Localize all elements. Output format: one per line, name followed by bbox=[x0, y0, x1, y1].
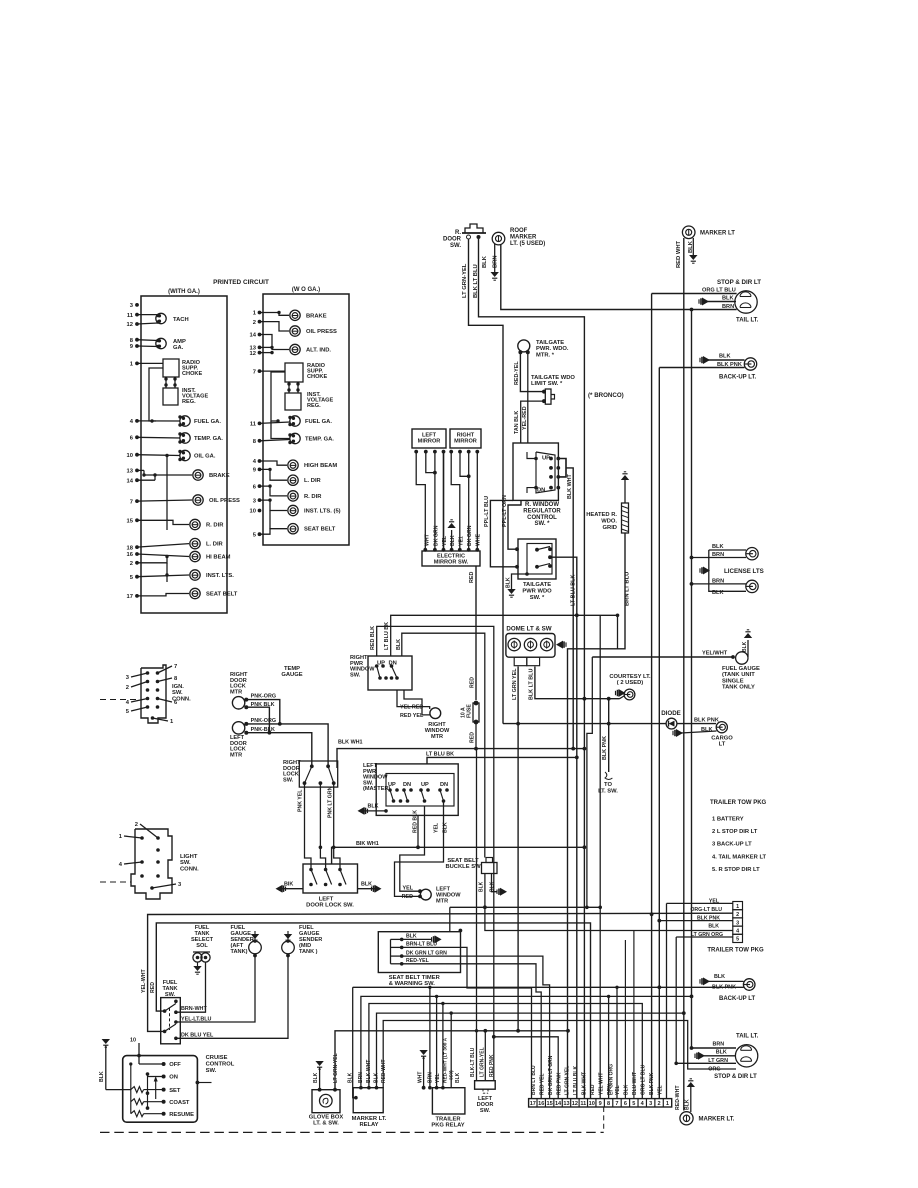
svg-text:RESUME: RESUME bbox=[169, 1112, 194, 1118]
svg-text:YEL: YEL bbox=[615, 1085, 621, 1095]
lamp OIL PRESS (B) bbox=[290, 326, 300, 336]
svg-text:TAILGATE: TAILGATE bbox=[536, 340, 564, 346]
svg-text:11: 11 bbox=[250, 422, 257, 428]
svg-text:ELECTRIC: ELECTRIC bbox=[437, 554, 465, 560]
svg-text:ALT. IND.: ALT. IND. bbox=[306, 348, 331, 354]
connector arrow BLK backup bbox=[699, 358, 701, 362]
svg-text:7: 7 bbox=[130, 499, 133, 505]
bus ORG LT BLU vertical bbox=[651, 294, 653, 915]
svg-text:BLK-LT BLU: BLK-LT BLU bbox=[470, 1047, 476, 1077]
wire fuel gauge feed down with jog bbox=[587, 657, 592, 907]
svg-text:TANK ONLY: TANK ONLY bbox=[722, 685, 755, 691]
lamp CARGO LT bbox=[716, 722, 727, 733]
svg-text:BLK WH1: BLK WH1 bbox=[338, 740, 363, 746]
svg-text:BRN-LT BLU: BRN-LT BLU bbox=[406, 942, 437, 948]
svg-text:BLK: BLK bbox=[708, 924, 719, 930]
svg-text:IGN.: IGN. bbox=[172, 684, 184, 690]
svg-text:12: 12 bbox=[250, 351, 256, 357]
wire LT BLU BLK from tailgate sw bbox=[550, 557, 577, 1098]
lamp L DIR (A) bbox=[190, 538, 200, 548]
gauge OIL GA (A) bbox=[180, 450, 190, 460]
svg-text:ORG LT BLU: ORG LT BLU bbox=[702, 288, 736, 294]
svg-text:RED PNK: RED PNK bbox=[489, 1054, 495, 1077]
svg-text:HEATED R.: HEATED R. bbox=[586, 512, 617, 518]
svg-text:YEL: YEL bbox=[435, 1073, 441, 1083]
svg-text:BLK: BLK bbox=[479, 881, 485, 892]
svg-text:BLK: BLK bbox=[742, 641, 748, 652]
svg-text:L. DIR: L. DIR bbox=[206, 542, 224, 548]
svg-text:YEL: YEL bbox=[403, 886, 414, 892]
svg-text:OIL GA.: OIL GA. bbox=[194, 454, 216, 460]
svg-text:PNK YEL: PNK YEL bbox=[298, 789, 304, 812]
wires seat belt timer pins bbox=[390, 939, 392, 963]
svg-text:HI BEAM: HI BEAM bbox=[206, 555, 231, 561]
wire BLK LT BLU from R DOOR SW bbox=[479, 239, 585, 1099]
svg-text:LIGHT: LIGHT bbox=[180, 854, 198, 860]
motor LEFT WINDOW MTR bbox=[420, 889, 431, 900]
svg-text:RED YEL: RED YEL bbox=[400, 713, 424, 719]
svg-text:2: 2 bbox=[658, 1101, 661, 1107]
svg-text:1: 1 bbox=[666, 1101, 669, 1107]
connector TRAILER TOW PKG bbox=[733, 902, 743, 910]
svg-text:TAN BLK: TAN BLK bbox=[514, 411, 520, 434]
svg-text:PNK LT GRN: PNK LT GRN bbox=[328, 786, 334, 818]
relay MARKER LT RELAY bbox=[353, 1088, 383, 1113]
cruise right stub bbox=[196, 1081, 200, 1085]
wire left contacts reg sw bbox=[527, 452, 536, 459]
svg-text:BACK-UP LT.: BACK-UP LT. bbox=[719, 375, 756, 381]
svg-text:4: 4 bbox=[736, 929, 739, 935]
svg-text:CONN.: CONN. bbox=[172, 696, 191, 702]
svg-text:ORG LT BLU: ORG LT BLU bbox=[640, 1064, 646, 1095]
svg-text:FUSE: FUSE bbox=[467, 704, 473, 718]
svg-text:RED-YEL: RED-YEL bbox=[514, 361, 520, 385]
bus BRN vertical right bbox=[691, 310, 693, 1049]
svg-text:3 BACK-UP LT: 3 BACK-UP LT bbox=[712, 842, 752, 848]
lamp ROOF MARKER LT bbox=[492, 232, 505, 245]
connector arrow BLK stop&dir bbox=[698, 299, 700, 303]
svg-text:FUEL GAUGE: FUEL GAUGE bbox=[722, 666, 760, 672]
svg-text:CHOKE: CHOKE bbox=[307, 374, 327, 380]
svg-text:DK BLU YEL: DK BLU YEL bbox=[181, 1032, 214, 1038]
wire from right pwr window sw to heated grid line bbox=[391, 615, 618, 656]
svg-text:LT BLU BLK: LT BLU BLK bbox=[573, 1066, 579, 1095]
svg-text:MARKER LT: MARKER LT bbox=[700, 231, 735, 237]
svg-text:14: 14 bbox=[555, 1101, 562, 1107]
svg-text:BLK: BLK bbox=[722, 296, 734, 302]
svg-text:12: 12 bbox=[572, 1101, 578, 1107]
dashed page border bottom bbox=[100, 1131, 604, 1133]
svg-text:SW.: SW. bbox=[180, 860, 191, 866]
ground BLK cruise bbox=[102, 1039, 110, 1044]
svg-text:DOOR LOCK SW.: DOOR LOCK SW. bbox=[306, 903, 354, 909]
wire YEL WHT fuel gauge bbox=[592, 656, 733, 658]
svg-text:BRN LT BLU: BRN LT BLU bbox=[625, 572, 631, 606]
svg-text:BLK: BLK bbox=[714, 974, 725, 980]
svg-text:YEL: YEL bbox=[434, 822, 440, 833]
svg-text:STOP & DIR LT: STOP & DIR LT bbox=[717, 279, 761, 286]
wire pin8 BRN bbox=[608, 996, 610, 1098]
svg-text:PNK-ORG: PNK-ORG bbox=[251, 694, 276, 700]
dash stub light conn bbox=[100, 881, 131, 883]
svg-text:TANK ): TANK ) bbox=[299, 949, 318, 955]
ground electric mirror sw bbox=[451, 530, 453, 549]
svg-text:TRAILER TOW PKG: TRAILER TOW PKG bbox=[707, 948, 764, 954]
svg-text:7: 7 bbox=[253, 369, 256, 375]
ground glove box bbox=[315, 1061, 323, 1066]
gauge TEMP GA (B) bbox=[290, 433, 300, 443]
svg-text:GLOVE BOX: GLOVE BOX bbox=[309, 1115, 344, 1121]
svg-text:DIODE: DIODE bbox=[661, 710, 681, 717]
svg-text:BLK: BLK bbox=[368, 804, 379, 810]
svg-text:PPL-LT BLU: PPL-LT BLU bbox=[484, 496, 490, 527]
svg-text:BLK: BLK bbox=[450, 535, 456, 546]
svg-text:(* BRONCO): (* BRONCO) bbox=[588, 392, 624, 399]
svg-text:WHE: WHE bbox=[476, 533, 482, 546]
svg-text:BIK WH1: BIK WH1 bbox=[356, 841, 379, 847]
switch LEFT DOOR SW bottom bbox=[475, 1081, 496, 1090]
node dome lt grn yel junction bbox=[516, 722, 520, 726]
svg-text:DOOR: DOOR bbox=[443, 236, 462, 242]
svg-text:2: 2 bbox=[126, 685, 129, 691]
ground fuel select sol bbox=[197, 962, 199, 966]
svg-text:DN: DN bbox=[440, 782, 448, 788]
svg-text:12: 12 bbox=[127, 322, 133, 328]
choke RADIO SUPP CHOKE (B) bbox=[285, 363, 303, 382]
svg-text:R. DIR: R. DIR bbox=[206, 523, 224, 529]
svg-text:TEMP. GA.: TEMP. GA. bbox=[194, 436, 223, 442]
svg-text:BLK: BLK bbox=[482, 255, 488, 268]
svg-text:MIRROR SW.: MIRROR SW. bbox=[434, 560, 469, 566]
svg-text:RED BLK: RED BLK bbox=[370, 626, 376, 650]
svg-text:BRN-WHT: BRN-WHT bbox=[181, 1006, 207, 1012]
node BRN / bus junction bbox=[690, 308, 694, 312]
wire YEL-RED tailgate mtr to reg sw bbox=[527, 352, 529, 443]
svg-text:DOME LT & SW: DOME LT & SW bbox=[506, 626, 551, 633]
svg-text:11: 11 bbox=[127, 313, 134, 319]
lamp L DIR (B) bbox=[288, 475, 298, 485]
wire BRN LT BLU heated grid bbox=[568, 533, 626, 1099]
svg-text:LT GRN-YEL: LT GRN-YEL bbox=[480, 1047, 486, 1077]
svg-text:RED: RED bbox=[402, 894, 413, 900]
lamp GLOVE BOX LT & SW bbox=[312, 1090, 340, 1113]
svg-text:BLK WHT: BLK WHT bbox=[567, 473, 573, 499]
svg-text:FUEL GA.: FUEL GA. bbox=[305, 419, 332, 425]
svg-text:CRUISE: CRUISE bbox=[206, 1055, 228, 1061]
svg-text:14: 14 bbox=[250, 333, 257, 339]
svg-text:LT GRN-YEL: LT GRN-YEL bbox=[462, 263, 468, 298]
svg-text:& WARNING SW.: & WARNING SW. bbox=[389, 981, 435, 987]
svg-text:YEL/WHT: YEL/WHT bbox=[702, 651, 728, 657]
bus BLK PNK to pin 2 bbox=[658, 987, 660, 1098]
wire buckle sw BLK down to trailer pin 4 bbox=[485, 907, 733, 930]
svg-text:TEMP: TEMP bbox=[284, 666, 300, 672]
svg-text:SEAT BELT: SEAT BELT bbox=[304, 527, 336, 533]
gauge AMP GA bbox=[156, 338, 166, 348]
motor RIGHT WINDOW MTR bbox=[430, 708, 441, 719]
wire BLK tailgate sw to ground bbox=[512, 574, 528, 589]
svg-text:YEL: YEL bbox=[442, 535, 448, 546]
svg-text:HIGH BEAM: HIGH BEAM bbox=[304, 463, 337, 469]
svg-text:ON: ON bbox=[169, 1075, 178, 1081]
svg-text:RED YEL: RED YEL bbox=[539, 1073, 545, 1095]
svg-text:RED: RED bbox=[590, 1084, 596, 1095]
svg-text:BLK: BLK bbox=[455, 1072, 461, 1083]
svg-text:3: 3 bbox=[736, 920, 739, 926]
svg-text:BLK: BLK bbox=[490, 881, 496, 892]
svg-text:R. DIR: R. DIR bbox=[304, 494, 322, 500]
svg-text:MARKER: MARKER bbox=[510, 234, 537, 240]
svg-text:LT GRN ORG: LT GRN ORG bbox=[609, 1064, 615, 1095]
svg-text:BRAKE: BRAKE bbox=[209, 473, 230, 479]
dash stub ign conn bbox=[100, 699, 139, 701]
svg-text:YE1: YE1 bbox=[459, 536, 465, 546]
svg-text:BLK: BLK bbox=[624, 1084, 630, 1095]
svg-text:BRN: BRN bbox=[493, 255, 499, 268]
svg-text:YEL-WHT: YEL-WHT bbox=[141, 969, 147, 993]
ground tailgate pwr wdo sw bbox=[507, 589, 515, 594]
svg-text:17: 17 bbox=[127, 594, 133, 600]
svg-text:BRN: BRN bbox=[713, 1041, 725, 1047]
svg-text:BRN LT BLU: BRN LT BLU bbox=[531, 1065, 537, 1095]
svg-text:SEAT BELT TIMER: SEAT BELT TIMER bbox=[389, 975, 441, 981]
svg-text:(W O GA.): (W O GA.) bbox=[292, 287, 320, 293]
connector strip 17-1 bbox=[529, 1099, 672, 1107]
wire BRN roof marker bbox=[501, 244, 737, 310]
svg-text:SEAT BELT: SEAT BELT bbox=[206, 592, 238, 598]
wire RED-YEL tailgate mtr to limit sw bbox=[520, 352, 544, 391]
svg-text:2: 2 bbox=[135, 822, 138, 828]
svg-text:SW.: SW. bbox=[480, 1108, 491, 1114]
svg-text:LT GRN-YEL: LT GRN-YEL bbox=[333, 1053, 339, 1083]
svg-text:5: 5 bbox=[632, 1101, 635, 1107]
svg-text:LT. (5 USED): LT. (5 USED) bbox=[510, 241, 545, 247]
gauge FUEL GA (B) bbox=[290, 416, 300, 426]
svg-text:REG.: REG. bbox=[307, 403, 321, 409]
svg-text:CARGO: CARGO bbox=[711, 736, 733, 742]
svg-text:7: 7 bbox=[615, 1101, 618, 1107]
svg-text:WHT: WHT bbox=[418, 1072, 424, 1083]
svg-text:COURTESY LT.: COURTESY LT. bbox=[609, 674, 651, 680]
svg-text:REGULATOR: REGULATOR bbox=[523, 508, 561, 514]
connector arrow license bbox=[699, 568, 701, 572]
svg-text:BLK PNK: BLK PNK bbox=[602, 736, 608, 760]
bus ORG LT BLU to pin 3 bbox=[651, 914, 653, 1098]
connector arrow cargo bbox=[672, 731, 674, 735]
svg-text:YEL-RED: YEL-RED bbox=[522, 406, 528, 430]
wire BLK PNK to LT SW bbox=[608, 699, 610, 772]
svg-text:RELAY: RELAY bbox=[359, 1122, 378, 1128]
svg-text:WDO.: WDO. bbox=[601, 518, 617, 524]
svg-text:OIL PRESS: OIL PRESS bbox=[209, 498, 240, 504]
svg-text:BLK: BLK bbox=[99, 1071, 105, 1082]
lamp LICENSE LTS lower bbox=[746, 580, 758, 592]
box SEAT BELT TIMER & WARNING SW bbox=[378, 932, 460, 973]
lamp R DIR (A) bbox=[190, 519, 200, 529]
svg-text:MTR: MTR bbox=[431, 734, 443, 740]
svg-text:SET: SET bbox=[169, 1088, 181, 1094]
svg-text:STOP & DIR LT: STOP & DIR LT bbox=[714, 1074, 757, 1080]
svg-text:10: 10 bbox=[130, 1038, 136, 1044]
svg-text:BUCKLE SW: BUCKLE SW bbox=[445, 864, 481, 870]
svg-text:SW.: SW. bbox=[283, 777, 294, 783]
svg-text:TEMP. GA.: TEMP. GA. bbox=[305, 437, 334, 443]
terminal dots electric mirror sw bbox=[423, 548, 427, 552]
svg-text:CONTROL: CONTROL bbox=[527, 515, 557, 521]
wire pin 9 vertical YEL WHT bbox=[599, 615, 601, 1098]
svg-text:MTR: MTR bbox=[436, 899, 448, 905]
svg-text:BLK: BLK bbox=[688, 240, 694, 253]
svg-text:2: 2 bbox=[736, 912, 739, 918]
svg-text:LIMIT SW. *: LIMIT SW. * bbox=[531, 381, 563, 387]
svg-text:GRID: GRID bbox=[603, 525, 618, 531]
svg-text:2 L STOP DIR LT: 2 L STOP DIR LT bbox=[712, 829, 758, 835]
svg-text:2: 2 bbox=[130, 561, 133, 567]
svg-text:3: 3 bbox=[649, 1101, 652, 1107]
relay TRAILER PKG RELAY bbox=[432, 1088, 465, 1114]
svg-text:10: 10 bbox=[250, 509, 256, 515]
svg-text:(WITH GA.): (WITH GA.) bbox=[168, 289, 200, 295]
svg-text:BLK PNK: BLK PNK bbox=[694, 718, 719, 724]
box RIGHT MIRROR bbox=[450, 429, 481, 448]
svg-text:TO: TO bbox=[604, 782, 612, 788]
svg-text:15: 15 bbox=[547, 1101, 553, 1107]
lamp HI BEAM (A) bbox=[190, 551, 200, 561]
motor TAILGATE PWR WDO MTR bbox=[518, 340, 530, 352]
svg-text:BACK-UP LT: BACK-UP LT bbox=[719, 996, 755, 1002]
svg-text:BLK: BLK bbox=[396, 639, 402, 650]
lamp SEAT BELT (A) bbox=[190, 588, 200, 598]
svg-text:1 BATTERY: 1 BATTERY bbox=[712, 817, 744, 823]
svg-text:BLK: BLK bbox=[506, 577, 512, 588]
svg-text:6: 6 bbox=[624, 1101, 627, 1107]
svg-text:BLK: BLK bbox=[716, 1050, 727, 1056]
connector IGN SW CONN bbox=[141, 665, 166, 723]
svg-text:DN: DN bbox=[403, 782, 411, 788]
svg-text:2: 2 bbox=[253, 320, 256, 326]
svg-text:5. R STOP DIR LT: 5. R STOP DIR LT bbox=[712, 867, 760, 873]
svg-text:GAUGE: GAUGE bbox=[281, 672, 302, 678]
svg-text:11: 11 bbox=[580, 1101, 586, 1107]
wire TAN BLK limit sw to reg sw bbox=[521, 401, 544, 443]
svg-text:INST. LTS. (5): INST. LTS. (5) bbox=[304, 509, 341, 515]
svg-text:BRAKE: BRAKE bbox=[306, 313, 327, 319]
svg-text:LT. SW.: LT. SW. bbox=[598, 788, 618, 794]
svg-text:TAIL LT.: TAIL LT. bbox=[736, 1034, 759, 1040]
svg-text:R. WINDOW: R. WINDOW bbox=[525, 502, 559, 508]
svg-text:TRAILER TOW PKG: TRAILER TOW PKG bbox=[710, 800, 767, 806]
svg-text:LT BLU BK: LT BLU BK bbox=[426, 751, 454, 757]
switch R DOOR SW bbox=[465, 224, 483, 233]
cruise arrow bbox=[155, 1079, 157, 1099]
svg-text:TRAILER: TRAILER bbox=[435, 1117, 461, 1123]
wires right mirror to electric mirror sw bbox=[451, 452, 460, 550]
svg-text:RED WHT: RED WHT bbox=[676, 240, 682, 268]
svg-text:MTR: MTR bbox=[230, 752, 242, 758]
lamp BRAKE (B) bbox=[290, 310, 300, 320]
cruise internal rails bbox=[130, 1064, 132, 1114]
connector LIGHT SW CONN bbox=[131, 829, 172, 899]
svg-text:RED: RED bbox=[469, 572, 475, 583]
svg-text:SW.: SW. bbox=[450, 243, 461, 249]
svg-text:YEL: YEL bbox=[657, 1085, 663, 1095]
svg-text:MTR. *: MTR. * bbox=[536, 352, 555, 358]
pin verticals short bbox=[633, 930, 635, 1099]
svg-text:SW.: SW. bbox=[206, 1068, 217, 1074]
svg-text:BLK: BLK bbox=[406, 934, 417, 940]
svg-text:PWR WDO: PWR WDO bbox=[522, 588, 552, 594]
wire reg rail (A) bbox=[149, 368, 163, 421]
gauge FUEL GA (A) bbox=[180, 416, 190, 426]
sender FUEL GAUGE TANK UNIT bbox=[736, 652, 748, 664]
switch TAILGATE PWR WDO SW bbox=[518, 539, 556, 579]
wire rail (A2) bbox=[166, 456, 168, 531]
svg-text:LT. & SW.: LT. & SW. bbox=[313, 1121, 339, 1127]
svg-text:LICENSE LTS: LICENSE LTS bbox=[724, 568, 764, 575]
svg-text:UP: UP bbox=[542, 456, 550, 462]
svg-text:SW. *: SW. * bbox=[530, 595, 545, 601]
svg-text:(TANK UNIT: (TANK UNIT bbox=[722, 672, 755, 678]
svg-text:UP: UP bbox=[421, 782, 429, 788]
svg-text:PWR. WDO.: PWR. WDO. bbox=[536, 346, 569, 352]
svg-text:MARKER LT.: MARKER LT. bbox=[352, 1116, 387, 1122]
svg-text:LT GRN YEL: LT GRN YEL bbox=[512, 668, 518, 700]
regulator INST VOLTAGE REG (B) bbox=[285, 393, 301, 410]
svg-text:ORG-LT BLU: ORG-LT BLU bbox=[690, 907, 722, 913]
svg-text:13: 13 bbox=[127, 469, 134, 475]
svg-text:DK GRN: DK GRN bbox=[434, 525, 440, 546]
svg-text:17: 17 bbox=[530, 1101, 536, 1107]
lamp INST LTS (A) bbox=[190, 570, 200, 580]
node marker feeds bbox=[683, 1012, 685, 1014]
svg-text:DK GRN: DK GRN bbox=[467, 525, 473, 546]
svg-text:SW.: SW. bbox=[350, 672, 361, 678]
svg-text:L. DIR: L. DIR bbox=[304, 478, 322, 484]
connector arrow buckle ground bbox=[496, 890, 498, 894]
svg-text:BLK: BLK bbox=[361, 881, 372, 887]
switch R WINDOW REGULATOR CONTROL SW bbox=[513, 443, 558, 500]
svg-text:RED: RED bbox=[470, 732, 476, 743]
wire PPL-LT ORN bbox=[508, 500, 521, 549]
svg-text:SW. *: SW. * bbox=[534, 521, 550, 527]
svg-text:INST. LTS.: INST. LTS. bbox=[206, 573, 234, 579]
svg-text:BLK WHT: BLK WHT bbox=[582, 1072, 588, 1095]
svg-text:LT GRN YEL: LT GRN YEL bbox=[565, 1066, 571, 1095]
svg-text:YEL WHT: YEL WHT bbox=[598, 1073, 604, 1095]
svg-text:COAST: COAST bbox=[169, 1100, 190, 1106]
svg-text:LT BLU BLK: LT BLU BLK bbox=[571, 575, 577, 606]
svg-text:FUEL GA.: FUEL GA. bbox=[194, 419, 221, 425]
svg-text:ROOF: ROOF bbox=[510, 228, 528, 234]
gauge TEMP GA (A) bbox=[180, 433, 190, 443]
svg-text:( 2 USED): ( 2 USED) bbox=[617, 680, 643, 686]
lamp R DIR (B) bbox=[288, 491, 298, 501]
wire LT GRN-YEL from R DOOR SW bbox=[469, 239, 504, 724]
lamp BRAKE (A) bbox=[193, 470, 203, 480]
node LT BLU BLK bbox=[575, 613, 579, 617]
dashed strip to border bbox=[603, 1107, 605, 1132]
wires seat belt buckle bbox=[484, 874, 486, 908]
resistor HEATED R WDO GRID bbox=[621, 475, 629, 480]
lamp ALT IND (B) bbox=[290, 344, 300, 354]
wire BLK roof marker to ground bbox=[494, 244, 496, 272]
wire RED electric mirror sw to fuse bbox=[475, 566, 477, 700]
svg-text:10: 10 bbox=[127, 453, 133, 459]
gauge TACH bbox=[156, 313, 166, 323]
svg-text:BIK: BIK bbox=[284, 881, 293, 887]
svg-text:BLK: BLK bbox=[712, 544, 724, 550]
svg-text:UP: UP bbox=[388, 782, 396, 788]
